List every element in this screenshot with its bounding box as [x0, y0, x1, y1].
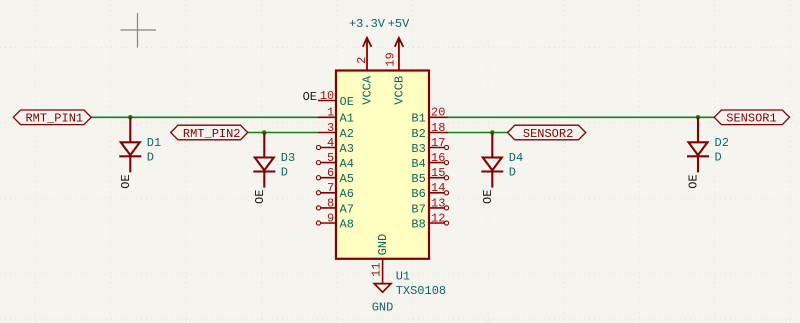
- diode D3: [253, 133, 275, 188]
- origin cross marker: [121, 13, 157, 48]
- svg-text:B1: B1: [411, 112, 425, 126]
- svg-text:D1: D1: [147, 136, 161, 150]
- svg-text:OE: OE: [481, 190, 495, 204]
- svg-text:SENSOR1: SENSOR1: [726, 112, 776, 126]
- right pin numbers: [431, 106, 445, 226]
- IC left pin stubs: [316, 101, 337, 226]
- pin 17 stub: [428, 147, 444, 149]
- svg-text:5: 5: [327, 151, 334, 165]
- svg-text:A5: A5: [340, 172, 354, 186]
- svg-text:VCCB: VCCB: [392, 76, 406, 105]
- svg-text:D4: D4: [509, 151, 523, 165]
- pin 14 stub: [428, 192, 444, 194]
- svg-text:A8: A8: [340, 217, 354, 231]
- right pin names: [411, 112, 425, 232]
- svg-text:D: D: [509, 166, 516, 180]
- svg-text:D: D: [281, 166, 288, 180]
- pin 1 stub: [318, 116, 337, 118]
- svg-text:B6: B6: [411, 187, 425, 201]
- svg-text:7: 7: [327, 181, 334, 195]
- pin 18 stub: [428, 132, 448, 134]
- pin 4 stub: [321, 147, 337, 149]
- svg-text:RMT_PIN2: RMT_PIN2: [183, 127, 241, 141]
- svg-text:+3.3V: +3.3V: [349, 17, 386, 31]
- svg-text:15: 15: [431, 166, 445, 180]
- svg-text:VCCA: VCCA: [360, 75, 374, 105]
- svg-text:B2: B2: [411, 127, 425, 141]
- wire pin B2 to SENSOR2: [446, 132, 508, 134]
- left pin numbers: [320, 89, 334, 226]
- svg-text:18: 18: [431, 121, 445, 135]
- svg-text:D: D: [715, 150, 722, 164]
- svg-text:B4: B4: [411, 157, 425, 171]
- diode D2: [687, 117, 709, 172]
- svg-text:OE: OE: [303, 90, 317, 104]
- svg-text:2: 2: [355, 57, 369, 64]
- svg-text:9: 9: [327, 211, 334, 225]
- left pin names: [340, 95, 354, 232]
- svg-text:OE: OE: [119, 174, 133, 188]
- pin 12 stub: [428, 222, 444, 224]
- GND pin 11 stub: [382, 258, 384, 284]
- svg-text:A6: A6: [340, 187, 354, 201]
- pin 10 stub: [318, 100, 337, 102]
- pin 9 stub: [321, 222, 337, 224]
- wire RMT_PIN1 to pin A1: [91, 116, 318, 118]
- pin 15 stub: [428, 177, 444, 179]
- svg-text:6: 6: [327, 166, 334, 180]
- svg-text:B5: B5: [411, 172, 425, 186]
- svg-text:D: D: [147, 150, 154, 164]
- svg-text:A2: A2: [340, 127, 354, 141]
- svg-text:D3: D3: [281, 151, 295, 165]
- svg-text:A7: A7: [340, 202, 354, 216]
- svg-text:3: 3: [327, 121, 334, 135]
- pin 3 stub: [318, 132, 337, 134]
- svg-text:10: 10: [320, 89, 334, 103]
- global label RMT_PIN2: [171, 125, 248, 141]
- pin 5 stub: [321, 162, 337, 164]
- svg-text:A3: A3: [340, 142, 354, 156]
- svg-text:U1: U1: [396, 269, 410, 283]
- svg-text:20: 20: [431, 106, 445, 120]
- pin 16 stub: [428, 162, 444, 164]
- svg-text:17: 17: [431, 136, 445, 150]
- IC right pin stubs: [428, 117, 449, 225]
- svg-text:16: 16: [431, 151, 445, 165]
- svg-text:OE: OE: [687, 174, 701, 188]
- svg-text:4: 4: [327, 136, 334, 150]
- svg-text:GND: GND: [376, 234, 390, 256]
- wire RMT_PIN2 to pin A2: [248, 132, 318, 134]
- pin 7 stub: [321, 192, 337, 194]
- op IC U1 body: [336, 71, 429, 259]
- svg-text:A4: A4: [340, 157, 354, 171]
- pin 8 stub: [321, 207, 337, 209]
- junction node J2: [262, 130, 267, 135]
- wire pin B1 to SENSOR1: [446, 116, 714, 118]
- global label SENSOR2: [508, 125, 586, 141]
- power symbol +5V (on VCCB pin 19): [395, 38, 404, 71]
- diode D1: [119, 117, 141, 172]
- svg-text:12: 12: [431, 211, 445, 225]
- svg-text:8: 8: [327, 196, 334, 210]
- svg-text:11: 11: [370, 262, 384, 276]
- global label RMT_PIN1: [13, 110, 91, 126]
- junction node J3: [490, 130, 495, 135]
- svg-text:GND: GND: [372, 301, 394, 315]
- ground symbol: [374, 284, 391, 293]
- svg-text:TXS0108: TXS0108: [396, 284, 446, 298]
- junction node J1: [128, 115, 133, 120]
- svg-text:D2: D2: [715, 136, 729, 150]
- svg-text:19: 19: [384, 52, 398, 66]
- svg-text:RMT_PIN1: RMT_PIN1: [25, 112, 83, 126]
- svg-text:B8: B8: [411, 217, 425, 231]
- svg-text:1: 1: [327, 106, 334, 120]
- pin 6 stub: [321, 177, 337, 179]
- svg-text:13: 13: [431, 196, 445, 210]
- pin 20 stub: [428, 116, 448, 118]
- svg-text:B3: B3: [411, 142, 425, 156]
- svg-text:+5V: +5V: [388, 17, 410, 31]
- diode D4: [481, 133, 503, 188]
- svg-text:OE: OE: [253, 190, 267, 204]
- pin 13 stub: [428, 207, 444, 209]
- svg-text:14: 14: [431, 181, 445, 195]
- svg-text:SENSOR2: SENSOR2: [523, 127, 573, 141]
- junction node J4: [696, 115, 701, 120]
- svg-text:OE: OE: [340, 95, 354, 109]
- global label SENSOR1: [714, 110, 789, 126]
- svg-text:A1: A1: [340, 112, 354, 126]
- power symbol +3.3V (on VCCA pin 2): [363, 38, 372, 71]
- svg-text:B7: B7: [411, 202, 425, 216]
